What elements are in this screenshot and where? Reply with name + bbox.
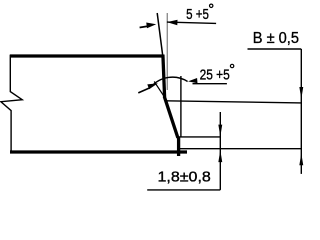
line A: root face top reference line [179, 136, 221, 138]
B up arrowhead [299, 153, 303, 165]
svg-text:25 +5: 25 +5 [200, 67, 230, 84]
5+5 dimension shelf with left-pointing arrow [167, 22, 216, 23]
svg-text:1,8±0,8: 1,8±0,8 [158, 168, 211, 185]
5+5 left arrow with tail [140, 26, 149, 28]
degree ring for 25+5 [230, 64, 233, 67]
1,8 up arrowhead [218, 150, 222, 162]
B down arrowhead [299, 87, 303, 99]
line B: bottom surface extension line [180, 148, 301, 150]
line C: B dimension top reference line [166, 101, 302, 103]
arc left arrowhead with tail leader [138, 88, 150, 93]
edge segment 5 deg (thick near-vertical) [163, 55, 165, 97]
1,8 dimension vertical line [219, 112, 221, 190]
plate top surface (thick line) [10, 54, 164, 57]
25 deg shelf with left-pointing arrowhead [193, 83, 227, 85]
degree ring for 5+5 [210, 4, 213, 7]
svg-text:В ± 0,5: В ± 0,5 [253, 30, 299, 47]
B label shelf [248, 48, 302, 50]
svg-text:5 +5: 5 +5 [186, 6, 209, 23]
plate bottom surface (thick line) [10, 150, 187, 153]
root face edge (thick vertical, overshoots bottom line) [177, 137, 180, 156]
25 deg dimension arc [151, 77, 188, 87]
bevel edge 25 deg (thick) [164, 97, 178, 138]
1,8 down arrowhead [218, 125, 222, 137]
vertical gray reference line [166, 13, 168, 90]
B dimension vertical line [300, 49, 302, 174]
tilted extension line of 5 deg edge (above surface) [157, 13, 163, 57]
bevel thin extension above vertex [154, 82, 166, 100]
plate left edge with break zigzag [1, 55, 22, 154]
1,8 label shelf [147, 189, 220, 191]
vertical extension line at root corner [180, 76, 182, 137]
